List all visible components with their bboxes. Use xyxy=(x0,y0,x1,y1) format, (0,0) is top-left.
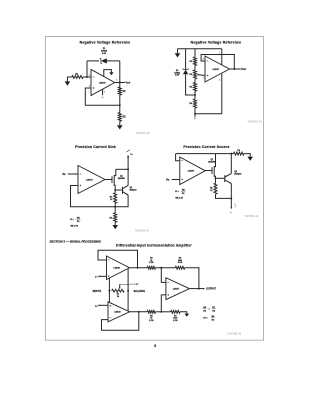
wire ground stub xyxy=(177,49,179,53)
svg-text:Negative Voltage Reference: Negative Voltage Reference xyxy=(80,41,131,45)
VIN label fig4 xyxy=(166,179,170,181)
wire V- stub fig2 xyxy=(194,114,196,118)
svg-text:(−): (−) xyxy=(95,276,98,278)
op-amp U4 LM107 xyxy=(180,157,205,185)
resistor R1 balance label xyxy=(117,294,120,298)
svg-text:Differential-Input Instrumenta: Differential-Input Instrumentation Ampli… xyxy=(116,244,192,248)
wire drain rail xyxy=(116,168,128,170)
wire non-inverting loop xyxy=(85,88,120,105)
svg-text:4: 4 xyxy=(104,91,105,94)
svg-text:3: 3 xyxy=(89,85,90,87)
svg-text:LM108: LM108 xyxy=(113,268,120,270)
wire R3 to node xyxy=(194,91,196,95)
formula IO equals VIN over R1 xyxy=(70,217,80,222)
wire emitter to rail xyxy=(115,195,128,207)
wire A3 noninverting input lead xyxy=(161,295,166,312)
wire node to R3 xyxy=(119,105,121,112)
svg-text:TL/H/7601–38: TL/H/7601–38 xyxy=(135,133,150,135)
svg-text:VOUT: VOUT xyxy=(126,83,131,85)
pin 2 label fig2 xyxy=(203,59,204,61)
formula VIN range fig4 xyxy=(175,197,183,200)
figure 4 reference number xyxy=(244,216,259,218)
wire output to gate fig4 xyxy=(205,170,212,172)
node top rail junction xyxy=(230,153,232,155)
svg-text:0.1%: 0.1% xyxy=(178,262,183,264)
svg-text:OUTPUT: OUTPUT xyxy=(206,289,216,291)
wire A1 input xyxy=(98,275,106,277)
svg-text:LM107: LM107 xyxy=(173,288,180,290)
transistor Q1 2N3456 fig4 xyxy=(212,154,216,179)
wire feedback right vertical xyxy=(119,61,121,83)
formula matching condition xyxy=(203,307,216,313)
wire output to gate xyxy=(105,179,112,181)
wire feedback loop fig2 xyxy=(201,55,234,70)
wire A1 feedback loop xyxy=(98,250,138,268)
wiper sense lead xyxy=(120,283,137,285)
node feedback divider tap xyxy=(119,104,121,106)
svg-text:6.2V: 6.2V xyxy=(175,75,180,77)
node source junction fig4 xyxy=(215,177,217,179)
figure 3 reference number xyxy=(135,230,150,232)
wire R1 to R2 xyxy=(194,66,196,71)
wire op-amp output xyxy=(115,82,125,84)
wire R6 to output corner xyxy=(185,268,199,289)
svg-text:SECTION 3 — SIGNAL PROCESSING: SECTION 3 — SIGNAL PROCESSING xyxy=(50,240,102,244)
input polarity label plus xyxy=(95,305,98,307)
resistor R1 label xyxy=(75,74,79,76)
V- label fig2 xyxy=(194,119,197,121)
page number 6 xyxy=(154,344,156,348)
pin 6 label xyxy=(116,80,117,82)
resistor R1 fig2 label xyxy=(189,61,193,63)
wire R2 to node xyxy=(119,95,121,105)
wire feedback top-left segment xyxy=(87,60,99,62)
wire R2 to R3 xyxy=(194,79,196,83)
wire R1 to ground fig4 xyxy=(244,154,250,157)
resistor R2 xyxy=(118,87,121,95)
svg-text:LM108: LM108 xyxy=(114,312,121,314)
resistor R3 label xyxy=(123,117,127,119)
wire rail to inverting input xyxy=(176,154,180,161)
svg-text:6.2V: 6.2V xyxy=(102,53,107,55)
resistor R3 fig2 xyxy=(194,83,197,92)
ground at V+ pin xyxy=(109,72,113,75)
figure 5 title: Differential-Input Instrumentation Amplifier xyxy=(116,244,192,248)
wire R1 to rail xyxy=(114,203,116,207)
formula gain xyxy=(203,316,215,322)
figure 3 title: Precision Current Sink xyxy=(75,145,116,149)
wire collector fig4 xyxy=(230,154,232,174)
resistor R6 in-amp xyxy=(175,266,184,269)
wire source to base fig4 xyxy=(216,177,225,179)
wire zener branch bottom xyxy=(186,74,195,95)
wire bottom rail fig4 xyxy=(216,194,232,198)
formula VIN range fig3 xyxy=(70,225,78,228)
node A1 output junction xyxy=(137,267,139,269)
transistor Q1 fig4 label xyxy=(208,159,216,163)
resistor R7 label 3 lines xyxy=(173,315,178,322)
svg-text:BALANCE: BALANCE xyxy=(134,290,146,293)
wire A1 output row xyxy=(130,267,148,269)
op-amp U5 LM108 (A1) xyxy=(107,256,130,280)
wire output terminal fig4 xyxy=(230,198,236,209)
resistor R2 label xyxy=(123,91,127,93)
resistor R1 fig4 label xyxy=(237,150,241,152)
svg-text:VIN ≥ 2V: VIN ≥ 2V xyxy=(175,197,183,200)
wire non-inverting feedback loop fig3 xyxy=(71,186,116,207)
resistor R4 fig2 label xyxy=(189,102,193,105)
wire R4 to node xyxy=(156,311,171,313)
resistor R1 xyxy=(72,76,83,79)
resistor R1 fig2 xyxy=(194,57,197,66)
wire load terminal xyxy=(127,150,130,170)
ground fig4 xyxy=(247,157,253,161)
VOUT label xyxy=(126,83,131,85)
wire VIN input fig4 xyxy=(172,179,180,181)
section 3 heading xyxy=(50,240,102,244)
svg-text:VIN ≥ 0V: VIN ≥ 0V xyxy=(70,225,78,228)
figure 1 reference number xyxy=(135,133,150,135)
wire A3 inverting input lead xyxy=(161,268,166,283)
node A2 output junction xyxy=(138,311,140,313)
op-amp U1 LM107 xyxy=(91,69,115,95)
transistor Q2 fig4 label xyxy=(234,171,242,175)
ground fig3 xyxy=(112,225,118,229)
svg-text:0.1%: 0.1% xyxy=(173,320,178,322)
svg-text:TL/H/7601–40: TL/H/7601–40 xyxy=(135,230,150,232)
resistor R4 in-amp xyxy=(147,310,155,313)
node feedback junction fig3 xyxy=(114,206,116,208)
wire top rail fig4 xyxy=(176,153,234,155)
resistor R4 label 3 lines xyxy=(149,314,154,322)
wire VIN to inverting input xyxy=(68,173,78,175)
wire node to R4 xyxy=(194,95,196,99)
svg-text:2: 2 xyxy=(89,74,90,76)
wire feedback left vertical xyxy=(86,61,88,77)
pin 4 label fig2 xyxy=(219,79,220,82)
svg-text:2: 2 xyxy=(203,59,204,61)
wire rail to R1 xyxy=(194,49,196,57)
svg-text:LM107: LM107 xyxy=(188,170,195,172)
zener Z1 figure2 label xyxy=(174,70,181,77)
V- label fig4 xyxy=(230,212,233,214)
svg-text:2N3456: 2N3456 xyxy=(208,161,216,164)
svg-text:Negative Voltage Reference: Negative Voltage Reference xyxy=(191,41,242,45)
transistor Q2 2N2219 fig4 xyxy=(225,174,232,184)
node output junction xyxy=(119,82,121,84)
resistor R7 in-amp xyxy=(171,310,180,313)
wire V+ pin to ground xyxy=(104,70,112,77)
wire R4 to bottom node xyxy=(194,108,196,114)
node A3 inverting xyxy=(160,267,162,269)
wire node to R2 fig3 xyxy=(114,207,116,213)
balance pot wiper xyxy=(119,284,121,289)
svg-text:TL/H/7601–42: TL/H/7601–42 xyxy=(227,334,242,336)
svg-text:Precision Current Sink: Precision Current Sink xyxy=(75,145,116,149)
resistor R2 fig2 label xyxy=(189,74,193,76)
wire top rail xyxy=(178,48,222,50)
transistor Q2 2N2219 xyxy=(123,185,129,195)
wire output fig2 xyxy=(230,68,241,70)
pin 4 label xyxy=(104,91,105,94)
svg-text:LM107: LM107 xyxy=(99,82,106,84)
ground at divider bottom xyxy=(117,125,123,129)
op-amp U3 LM107 xyxy=(78,166,105,194)
node balance right xyxy=(127,290,129,292)
wire A2 output row xyxy=(130,311,148,313)
INPUTS label xyxy=(93,291,102,293)
svg-text:6: 6 xyxy=(154,344,156,348)
VOUT label fig2 xyxy=(241,69,246,71)
wire collector xyxy=(127,169,129,185)
node inverting input junction xyxy=(86,76,88,78)
VIN label fig3 xyxy=(62,174,66,176)
wiper footnote mark xyxy=(136,283,138,285)
wire V+ pin fig2 xyxy=(221,49,223,66)
resistor R2 fig3 xyxy=(114,213,117,222)
resistor R2 fig2 (pot) xyxy=(194,70,197,79)
resistor R2 fig4 xyxy=(214,183,217,194)
svg-text:Precision Current Source: Precision Current Source xyxy=(183,145,229,149)
input polarity label minus xyxy=(95,276,98,278)
node zener junction xyxy=(194,94,196,96)
svg-text:2N2219: 2N2219 xyxy=(130,189,138,191)
svg-text:VOUT: VOUT xyxy=(241,69,246,71)
resistor R3 xyxy=(118,113,121,122)
node A3 noninverting xyxy=(160,311,162,313)
OUTPUT label xyxy=(206,289,216,291)
wire source node to R1 xyxy=(114,190,116,193)
resistor R3 fig2 label xyxy=(189,87,193,89)
wire output to R2 xyxy=(119,83,121,87)
op-amp U7 LM107 (A3) xyxy=(166,278,190,300)
svg-text:2N3456: 2N3456 xyxy=(118,177,126,180)
wire R3 to summing node xyxy=(156,267,176,269)
resistor R1 fig3 xyxy=(114,193,117,204)
pin 7 label fig2 xyxy=(219,52,220,54)
svg-text:4: 4 xyxy=(219,79,220,82)
resistor R1 balance pot xyxy=(112,289,125,292)
wire source node to R2 fig4 xyxy=(215,178,217,183)
wire source to base xyxy=(115,189,122,191)
ground at R1 input xyxy=(65,81,71,85)
terminal label fig4 xyxy=(234,204,236,206)
resistor R3 in-amp xyxy=(147,266,155,269)
pin 2 label xyxy=(89,74,90,76)
node A3 output junction xyxy=(198,288,200,290)
wire A2 feedback loop xyxy=(102,312,139,330)
svg-text:2N2219: 2N2219 xyxy=(234,173,242,175)
svg-text:3: 3 xyxy=(203,78,204,80)
transistor Q1 2N3456 JFET xyxy=(112,169,116,190)
svg-text:6: 6 xyxy=(116,80,117,82)
formula IO equals VIN over R1 fig4 xyxy=(175,189,185,194)
resistor R1 fig4 xyxy=(234,152,245,155)
pin 3 label fig2 xyxy=(203,78,204,80)
node balance left xyxy=(108,290,110,292)
ground at top rail xyxy=(175,53,181,57)
resistor R6 label 3 lines xyxy=(178,258,183,265)
wire A1 to balance rail xyxy=(108,278,110,291)
figure 2 title: Negative Voltage Reference xyxy=(191,41,242,45)
op-amp U2 LM107 xyxy=(205,56,230,82)
svg-text:TL/H/7601–41: TL/H/7601–41 xyxy=(244,216,259,218)
wire A3 output xyxy=(189,288,204,290)
wire R1 to node xyxy=(83,76,91,78)
svg-text:LM107: LM107 xyxy=(86,179,93,181)
pin 3 label xyxy=(89,85,90,87)
svg-text:Iₒ: Iₒ xyxy=(234,204,236,206)
pin V- stub xyxy=(102,89,104,95)
resistor R2 fig3 label xyxy=(110,218,113,220)
wire R2 to ground fig3 xyxy=(114,222,116,225)
wire R3 to ground xyxy=(119,121,121,125)
transistor Q2 label xyxy=(130,187,138,191)
wire zener branch top xyxy=(185,49,187,70)
svg-text:TL/H/7601–39: TL/H/7601–39 xyxy=(247,121,262,123)
BALANCE label xyxy=(134,290,146,293)
node bottom junction xyxy=(194,113,196,115)
wire balance right vertical xyxy=(127,269,129,312)
node output junction fig4 xyxy=(230,197,232,199)
figure 2 reference number xyxy=(247,121,262,123)
page border frame xyxy=(45,37,263,341)
node output junction fig2 xyxy=(233,68,235,70)
resistor R3 label 3 lines xyxy=(149,258,154,265)
svg-text:INPUTS: INPUTS xyxy=(93,291,102,293)
figure 5 reference number xyxy=(227,334,242,336)
svg-text:(+): (+) xyxy=(95,305,98,307)
svg-text:0.1%: 0.1% xyxy=(149,262,154,264)
wire balance rail left vertical lower xyxy=(108,291,110,303)
V- label xyxy=(102,97,105,99)
svg-text:LM107: LM107 xyxy=(213,69,220,71)
V+ terminal label xyxy=(130,154,133,156)
wire feedback top-right segment xyxy=(106,60,120,62)
zener diode Z1 xyxy=(100,58,107,64)
wire A2 input xyxy=(98,304,108,306)
zener diode Z1 of figure 2 xyxy=(183,68,188,74)
resistor R1 fig3 label xyxy=(110,197,113,201)
node drain junction xyxy=(127,168,129,170)
node source junction xyxy=(114,189,116,191)
wire R7 to ground xyxy=(180,312,187,314)
resistor R2 fig4 label xyxy=(210,187,213,191)
transistor Q1 label xyxy=(118,176,126,180)
figure 1 title: Negative Voltage Reference xyxy=(80,41,131,45)
resistor R4 fig2 xyxy=(194,99,197,108)
ground in-amp xyxy=(185,314,190,317)
wire bottom rail and V- pin fig2 xyxy=(195,74,222,114)
wire emitter fig4 xyxy=(230,183,232,198)
wire R1 to ground xyxy=(67,77,71,81)
svg-text:0.1%: 0.1% xyxy=(149,320,154,322)
op-amp U6 LM108 (A2) xyxy=(108,302,130,322)
figure 4 title: Precision Current Source xyxy=(183,145,229,149)
wire wiper to non-inverting input xyxy=(197,74,205,76)
zener Z1 value label (1N829 6.2V) xyxy=(101,48,108,55)
